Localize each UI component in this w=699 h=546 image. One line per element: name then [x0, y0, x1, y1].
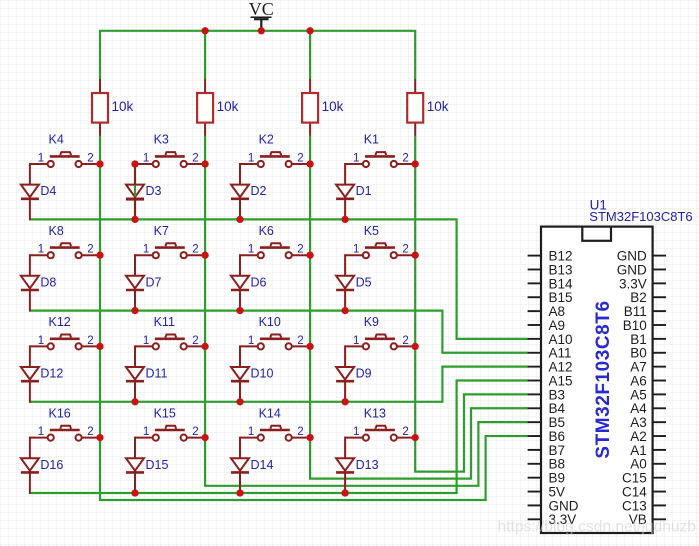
IC U1 body: [541, 227, 653, 533]
svg-text:2: 2: [87, 426, 93, 438]
svg-text:B11: B11: [624, 304, 647, 319]
svg-text:C14: C14: [622, 484, 647, 499]
svg-text:1: 1: [353, 426, 359, 438]
svg-text:2: 2: [402, 244, 408, 256]
U1 pin GND (right 1): [617, 249, 666, 264]
svg-text:D14: D14: [251, 458, 274, 472]
svg-text:1: 1: [143, 152, 149, 164]
diode D3 leads (redrawn over wire): [126, 164, 144, 219]
junction: K1 pin2 on column 4: [412, 160, 419, 167]
svg-text:D11: D11: [146, 367, 168, 381]
svg-text:D2: D2: [251, 184, 267, 198]
diode D15: [126, 437, 144, 494]
U1 pin B6 (left 14): [528, 429, 565, 444]
svg-text:B15: B15: [549, 290, 573, 305]
junction: D9 on row wire 3: [341, 398, 348, 405]
junction: D6 on row wire 2: [236, 307, 243, 314]
svg-text:1: 1: [248, 335, 254, 347]
switch K13: [345, 426, 414, 441]
U1 pin 3.3V (left 20): [528, 512, 577, 527]
svg-text:1: 1: [38, 426, 44, 438]
U1 pin B13 (left 2): [528, 262, 573, 277]
U1 pin B5 (left 13): [528, 415, 565, 430]
svg-text:A5: A5: [630, 387, 647, 402]
svg-text:A0: A0: [630, 457, 647, 472]
svg-text:1: 1: [353, 244, 359, 256]
svg-text:A4: A4: [630, 401, 647, 416]
junction: K7 pin2 on column 2: [201, 252, 208, 259]
svg-text:B14: B14: [549, 276, 574, 291]
svg-text:D3: D3: [146, 184, 162, 198]
U1 pin B3 (left 11): [528, 387, 565, 402]
svg-text:1: 1: [248, 152, 254, 164]
U1 pin A8 (left 5): [528, 304, 565, 319]
U1 pin GND (left 19): [528, 498, 579, 513]
switch K5: [345, 243, 414, 258]
diode D4: [21, 163, 39, 220]
junction: K2 pin2 on column 3: [306, 160, 313, 167]
diode D11: [126, 345, 144, 402]
junction: D1 on row wire 1: [341, 216, 348, 223]
switch K16: [30, 426, 99, 441]
switch K2: [240, 152, 309, 167]
wire column 4 upper (bus to resistor): [414, 30, 416, 79]
svg-text:D15: D15: [146, 458, 169, 472]
switch K6: [240, 243, 309, 258]
svg-text:10k: 10k: [112, 99, 134, 114]
svg-text:A6: A6: [630, 373, 647, 388]
junction: K3 pin2 on column 2: [201, 160, 208, 167]
svg-text:B6: B6: [549, 429, 566, 444]
junction: K10 pin2 on column 3: [306, 343, 313, 350]
svg-text:B12: B12: [549, 249, 573, 264]
junction: D14 on row wire 4: [236, 489, 243, 496]
diode D6: [231, 254, 249, 311]
svg-text:A2: A2: [630, 429, 647, 444]
U1 pin A7 (right 9): [630, 360, 666, 375]
svg-text:2: 2: [87, 152, 93, 164]
wire row 3 (diodes to MCU pin A12): [30, 367, 528, 402]
diode D7: [126, 254, 144, 311]
svg-text:D8: D8: [40, 275, 56, 289]
U1 pin B12 (left 1): [528, 249, 573, 264]
U1 pin A0 (right 16): [630, 457, 666, 472]
diode D13: [336, 437, 354, 494]
U1 pin B1 (right 7): [630, 332, 666, 347]
svg-text:D7: D7: [146, 275, 162, 289]
switch K10: [240, 335, 309, 350]
junction: D13 on row wire 4: [341, 489, 348, 496]
svg-text:2: 2: [297, 244, 303, 256]
svg-text:K13: K13: [364, 406, 386, 420]
svg-text:D10: D10: [251, 367, 274, 381]
resistor R2 10k: [197, 79, 213, 136]
junction: D7 on row wire 2: [131, 307, 138, 314]
svg-text:2: 2: [402, 335, 408, 347]
resistor R4 10k: [407, 79, 423, 136]
svg-text:1: 1: [143, 244, 149, 256]
U1 pin A10 (left 7): [528, 332, 573, 347]
U1 pin A15 (left 10): [528, 373, 573, 388]
svg-text:B5: B5: [549, 415, 566, 430]
svg-text:B8: B8: [549, 457, 566, 472]
svg-text:A9: A9: [549, 318, 566, 333]
svg-text:A10: A10: [549, 332, 573, 347]
svg-text:A15: A15: [549, 373, 573, 388]
U1 pin B2 (right 4): [630, 290, 666, 305]
svg-text:10k: 10k: [427, 99, 449, 114]
junction: column on bus: [306, 27, 313, 34]
svg-text:D4: D4: [40, 184, 56, 198]
U1 pin C15 (right 17): [622, 471, 666, 486]
switch K11: [135, 335, 204, 350]
switch K9: [345, 335, 414, 350]
svg-text:10k: 10k: [322, 99, 344, 114]
svg-text:2: 2: [402, 152, 408, 164]
U1 pin B14 (left 3): [528, 276, 573, 291]
diode D16: [21, 437, 39, 494]
svg-text:1: 1: [38, 335, 44, 347]
junction: K3 pin1 / D3 anode: [131, 160, 138, 167]
diode D10: [231, 345, 249, 402]
switch K7: [135, 243, 204, 258]
svg-text:K3: K3: [154, 133, 169, 147]
svg-text:A11: A11: [549, 346, 572, 361]
svg-text:1: 1: [38, 152, 44, 164]
wire row 4 (diodes to MCU pin A15): [30, 381, 528, 493]
U1 pin C14 (right 18): [622, 484, 666, 499]
junction: K11 pin2 on column 2: [201, 343, 208, 350]
svg-text:B10: B10: [623, 318, 647, 333]
junction: K15 pin2 on column 2: [201, 434, 208, 441]
svg-text:A7: A7: [630, 360, 647, 375]
svg-text:GND: GND: [617, 262, 647, 277]
U1 pin B9 (left 17): [528, 471, 565, 486]
wire column 3 (resistor to keys, bottom route to MCU pin B4): [310, 135, 528, 478]
wire column 1 (resistor to keys, bottom route to MCU pin B6): [100, 135, 528, 500]
svg-text:3.3V: 3.3V: [619, 276, 647, 291]
switch K14: [240, 426, 309, 441]
svg-text:1: 1: [38, 244, 44, 256]
power net VC: [249, 0, 274, 31]
diode D14: [231, 437, 249, 494]
svg-text:K5: K5: [364, 224, 379, 238]
junction: D3 on row wire 1: [131, 216, 138, 223]
U1 pin A1 (right 15): [630, 443, 666, 458]
resistor R3 10k: [302, 79, 318, 136]
svg-text:1: 1: [353, 335, 359, 347]
svg-text:1: 1: [248, 426, 254, 438]
switch K15: [135, 426, 204, 441]
svg-text:B1: B1: [630, 332, 647, 347]
junction: K4 pin2 on column 1: [96, 160, 103, 167]
svg-text:A12: A12: [549, 360, 573, 375]
svg-text:D12: D12: [40, 367, 63, 381]
svg-text:K11: K11: [154, 315, 175, 329]
svg-text:STM32F103C8T6: STM32F103C8T6: [589, 209, 692, 224]
svg-text:GND: GND: [549, 498, 579, 513]
junction: K12 pin2 on column 1: [96, 343, 103, 350]
svg-text:2: 2: [192, 244, 198, 256]
svg-text:B2: B2: [630, 290, 647, 305]
svg-text:K16: K16: [49, 406, 71, 420]
svg-text:K9: K9: [364, 315, 379, 329]
junction: K8 pin2 on column 1: [96, 252, 103, 259]
svg-text:https://blog.csdn.net/jqdhuzb: https://blog.csdn.net/jqdhuzb: [498, 519, 697, 536]
svg-text:K12: K12: [49, 315, 71, 329]
svg-text:B3: B3: [549, 387, 566, 402]
svg-text:1: 1: [248, 244, 254, 256]
svg-text:D9: D9: [356, 367, 372, 381]
junction: D5 on row wire 2: [341, 307, 348, 314]
junction: K14 pin2 on column 3: [306, 434, 313, 441]
svg-text:B7: B7: [549, 443, 566, 458]
U1 pin B7 (left 15): [528, 443, 565, 458]
junction: K9 pin2 on column 4: [412, 343, 419, 350]
svg-text:2: 2: [297, 152, 303, 164]
wire row 1 (diodes to MCU pin A10): [30, 219, 528, 338]
diode D12: [21, 345, 39, 402]
wire row 2 (diodes to MCU pin A11): [30, 311, 528, 353]
junction: D11 on row wire 3: [131, 398, 138, 405]
svg-text:C15: C15: [622, 471, 647, 486]
U1 pin A3 (right 13): [630, 415, 666, 430]
svg-text:2: 2: [402, 426, 408, 438]
resistor R1 10k: [92, 79, 108, 136]
wire VC bus: [100, 30, 415, 32]
svg-text:K15: K15: [154, 406, 176, 420]
U1 pin A6 (right 10): [630, 373, 666, 388]
U1 pin A9 (left 6): [528, 318, 565, 333]
diode D5: [336, 254, 354, 311]
svg-text:B0: B0: [630, 346, 647, 361]
svg-text:D16: D16: [40, 458, 63, 472]
svg-text:2: 2: [192, 335, 198, 347]
diode D8: [21, 254, 39, 311]
svg-text:B9: B9: [549, 471, 566, 486]
switch K4: [30, 152, 99, 167]
junction: D2 on row wire 1: [236, 216, 243, 223]
U1 pin A4 (right 12): [630, 401, 666, 416]
svg-text:10k: 10k: [217, 99, 239, 114]
svg-text:2: 2: [192, 426, 198, 438]
diode D9: [336, 345, 354, 402]
switch K8: [30, 243, 99, 258]
svg-text:2: 2: [297, 335, 303, 347]
svg-text:A3: A3: [630, 415, 647, 430]
svg-text:K6: K6: [259, 224, 274, 238]
svg-text:K4: K4: [49, 133, 64, 147]
U1 pin A12 (left 9): [528, 360, 573, 375]
svg-text:B13: B13: [549, 262, 573, 277]
U1 pin 3.3V (right 3): [619, 276, 666, 291]
U1 pin B0 (right 8): [630, 346, 666, 361]
svg-text:A1: A1: [630, 443, 647, 458]
wire column 1 upper (bus to resistor): [99, 30, 101, 79]
U1 pin A5 (right 11): [630, 387, 666, 402]
svg-text:K1: K1: [364, 133, 379, 147]
U1 pin A11 (left 8): [528, 346, 572, 361]
U1 pin B10 (right 6): [623, 318, 666, 333]
svg-text:2: 2: [87, 244, 93, 256]
svg-text:D1: D1: [356, 184, 372, 198]
svg-text:5V: 5V: [549, 484, 566, 499]
U1 pin B11 (right 5): [624, 304, 666, 319]
svg-text:D6: D6: [251, 275, 267, 289]
svg-text:K2: K2: [259, 133, 274, 147]
junction: K16 pin2 on column 1: [96, 434, 103, 441]
diode D1: [336, 163, 354, 220]
diode D2: [231, 163, 249, 220]
U1 pin C13 (right 19): [622, 498, 666, 513]
junction: K6 pin2 on column 3: [306, 252, 313, 259]
wire K3 pin1 to row 1 (through D3): [134, 164, 136, 220]
svg-text:K8: K8: [49, 224, 64, 238]
svg-text:GND: GND: [617, 249, 647, 264]
svg-text:1: 1: [143, 335, 149, 347]
svg-text:VC: VC: [249, 0, 274, 19]
junction: VC tap on bus: [258, 27, 265, 34]
U1 pin B8 (left 16): [528, 457, 565, 472]
svg-text:K10: K10: [259, 315, 281, 329]
switch K3: [135, 152, 204, 167]
svg-text:1: 1: [353, 152, 359, 164]
svg-text:K7: K7: [154, 224, 169, 238]
wire column 3 upper (bus to resistor): [309, 30, 311, 79]
junction: K5 pin2 on column 4: [412, 252, 419, 259]
junction: K13 pin2 on column 4: [412, 434, 419, 441]
wire column 2 (resistor to keys, bottom route to MCU pin B5): [205, 135, 528, 485]
junction: column on bus: [201, 27, 208, 34]
svg-text:2: 2: [297, 426, 303, 438]
switch K1: [345, 152, 414, 167]
svg-text:A8: A8: [549, 304, 566, 319]
wire column 2 upper (bus to resistor): [204, 30, 206, 79]
svg-text:D13: D13: [356, 458, 379, 472]
svg-text:2: 2: [192, 152, 198, 164]
svg-text:C13: C13: [622, 498, 647, 513]
switch K12: [30, 335, 99, 350]
diode D3: [126, 163, 144, 220]
svg-text:1: 1: [143, 426, 149, 438]
svg-text:D5: D5: [356, 275, 372, 289]
U1 pin VB (right 20): [629, 512, 666, 527]
svg-text:B4: B4: [549, 401, 566, 416]
svg-text:2: 2: [87, 335, 93, 347]
U1 pin B4 (left 12): [528, 401, 566, 416]
wire column 4 (resistor to keys, bottom route to MCU pin B3): [415, 135, 528, 471]
junction: D10 on row wire 3: [236, 398, 243, 405]
U1 pin B15 (left 4): [528, 290, 573, 305]
svg-text:K14: K14: [259, 406, 281, 420]
U1 pin 5V (left 18): [528, 484, 565, 499]
U1 pin GND (right 2): [617, 262, 666, 277]
svg-text:STM32F103C8T6: STM32F103C8T6: [593, 300, 614, 458]
U1 pin A2 (right 14): [630, 429, 666, 444]
junction: D15 on row wire 4: [131, 489, 138, 496]
